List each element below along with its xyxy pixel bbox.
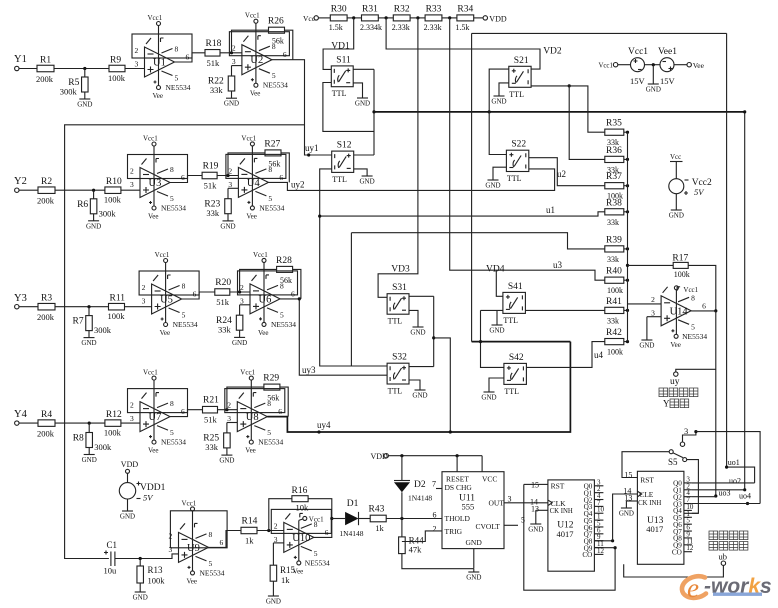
resistor R19 (202, 172, 217, 179)
svg-text:R13: R13 (148, 565, 164, 575)
svg-text:R30: R30 (331, 5, 347, 15)
svg-text:R14: R14 (242, 517, 258, 527)
resistor R16 (292, 496, 308, 502)
value R21 51k (204, 415, 218, 425)
wire R29 to output (280, 387, 288, 417)
U13 Q8 stub (684, 537, 692, 539)
node u1 (546, 205, 555, 215)
svg-text:VD3: VD3 (391, 264, 410, 274)
label R25 (203, 434, 219, 444)
svg-text:555: 555 (462, 502, 475, 512)
value R3 200k (37, 312, 55, 322)
svg-text:Vee: Vee (670, 341, 681, 349)
svg-text:1k: 1k (245, 536, 254, 546)
U12 pin number 4 (597, 492, 601, 500)
junction rail R38 (626, 210, 629, 213)
U13 pin Q5 (673, 514, 682, 522)
wire to R7 (88, 307, 90, 316)
label S5 (668, 457, 678, 467)
wire S21 gnd stub (499, 83, 509, 96)
svg-text:NE5534: NE5534 (200, 568, 225, 577)
svg-text:uy1: uy1 (305, 143, 319, 153)
wire U11 gnd drop (473, 549, 475, 569)
wire Y4 input (19, 422, 38, 424)
svg-text:2: 2 (169, 531, 173, 540)
svg-text:Y: Y (663, 399, 670, 409)
U12 Q1 stub (594, 492, 603, 494)
wire U12 RST stub (536, 483, 548, 485)
wire Vcc2 stem (675, 162, 677, 179)
junction uy1 (307, 153, 310, 156)
svg-text:Vcc1: Vcc1 (240, 369, 255, 377)
value R7 300k (94, 325, 112, 335)
svg-text:GND: GND (669, 212, 684, 220)
junction uy3 (298, 297, 301, 300)
svg-text:U10: U10 (292, 533, 310, 544)
wire to R8 (88, 423, 90, 432)
label R1 (40, 56, 51, 66)
U11 pin2 (433, 525, 437, 534)
svg-text:GND: GND (466, 538, 483, 547)
wire U11 trig jog (402, 531, 442, 542)
terminal Y4 (15, 421, 19, 425)
resistor R38 (605, 209, 624, 215)
U13 pin15 (624, 470, 632, 479)
node VDD top (489, 14, 507, 23)
svg-text:GND: GND (485, 182, 500, 190)
label R24 (216, 316, 232, 326)
resistor R5 (82, 77, 89, 92)
wire S21 out to R35 (531, 86, 605, 132)
resistor R36 (605, 156, 624, 162)
ground R15 (266, 596, 281, 606)
wire R17 to out (688, 265, 716, 311)
label trigger-input (709, 542, 748, 551)
resistor R31 (362, 15, 379, 21)
U13 pin Q9 (673, 542, 682, 550)
wire VDD drop pin8 (481, 456, 483, 472)
svg-text:12: 12 (686, 544, 694, 552)
U12 pin13 (531, 505, 539, 514)
svg-text:200k: 200k (37, 312, 55, 322)
svg-text:U8: U8 (246, 412, 259, 423)
U12 pin number 10 (597, 506, 605, 514)
wire feedback R28 (240, 269, 277, 292)
svg-text:R21: R21 (203, 396, 219, 406)
wire C1 to R13 node (115, 554, 179, 559)
svg-text:NE5534: NE5534 (173, 320, 198, 329)
svg-text:56k: 56k (280, 276, 292, 285)
wire S3 rail to uy4 line (434, 338, 451, 432)
junction Y3 node (87, 305, 90, 308)
value R20 51k (216, 297, 230, 307)
junction supplies gnd (652, 63, 655, 66)
node uo4 (739, 491, 751, 500)
value R10 100k (104, 195, 122, 205)
power source Vee1 (660, 58, 674, 72)
svg-text:8: 8 (691, 293, 695, 302)
U12 Q4 stub (594, 512, 603, 514)
label R38 (606, 198, 622, 208)
terminal 3 (680, 442, 684, 446)
wire U12 CKINH gnd (536, 509, 548, 511)
svg-text:uy3: uy3 (302, 365, 316, 375)
svg-text:Vee: Vee (250, 90, 261, 98)
svg-text:33k: 33k (218, 324, 232, 334)
svg-text:Vee: Vee (153, 92, 164, 100)
wire R21 to U8 (218, 409, 238, 411)
svg-text:TTL: TTL (509, 90, 524, 99)
svg-text:S41: S41 (508, 282, 523, 292)
node Vee terminal (693, 61, 705, 70)
svg-text:2: 2 (274, 521, 278, 530)
wire R23 to gnd (227, 214, 229, 221)
svg-text:R27: R27 (264, 139, 280, 149)
node uo1 (728, 458, 740, 467)
svg-text:100k: 100k (607, 286, 623, 295)
ground S21 (491, 96, 506, 106)
svg-text:ub: ub (719, 552, 728, 562)
svg-text:5: 5 (280, 310, 284, 319)
analog switch S32 (387, 353, 409, 396)
wire S32 gnd stub (409, 380, 420, 390)
U13 Q7 stub (684, 530, 692, 532)
svg-text:TTL: TTL (388, 387, 403, 396)
wire terminal3 right (696, 432, 760, 504)
junction VDD D2 (400, 454, 403, 457)
U12 pin number 11 (597, 540, 604, 548)
svg-text:56k: 56k (267, 394, 279, 403)
svg-text:GND: GND (232, 339, 247, 347)
U12 pin Q0 (584, 483, 593, 491)
wire R13 gnd (139, 583, 141, 592)
svg-text:Y1: Y1 (14, 54, 27, 65)
op-amp U1 (132, 14, 192, 100)
resistor R10 (105, 187, 121, 194)
U13 pin Q1 (673, 487, 682, 495)
wire rail to U14 pin2 (628, 303, 662, 305)
svg-text:2: 2 (142, 283, 146, 292)
svg-text:TTL: TTL (332, 175, 347, 184)
wire U7 out (170, 410, 203, 417)
svg-text:S32: S32 (392, 353, 407, 363)
wire S31 gnd stub (409, 310, 418, 327)
resistor R6 (90, 199, 97, 214)
svg-text:U9: U9 (187, 543, 200, 554)
svg-text:100k: 100k (108, 73, 126, 83)
diode D2 (394, 481, 410, 493)
svg-text:U6: U6 (259, 294, 272, 305)
svg-text:NE5534: NE5534 (161, 204, 186, 213)
U13 pin number 5 (686, 517, 690, 525)
svg-text:uy2: uy2 (291, 180, 305, 190)
label R44 (409, 536, 425, 546)
U12 pin Q9 (584, 544, 593, 552)
svg-text:47k: 47k (409, 545, 423, 555)
svg-text:GND: GND (491, 98, 506, 106)
svg-text:5: 5 (268, 194, 272, 203)
wire R36 feed (569, 86, 605, 159)
U12 Q7 stub (594, 533, 603, 535)
svg-text:2: 2 (433, 525, 437, 534)
svg-text:GND: GND (82, 456, 97, 464)
wire U11 out to U12 (504, 502, 548, 504)
resistor R18 (205, 50, 220, 57)
U13 pin14 (623, 486, 631, 495)
svg-text:3: 3 (508, 495, 512, 504)
ground S42 (481, 392, 496, 402)
wire S5 to U13 RST (622, 452, 669, 478)
wire S41 in (496, 270, 503, 296)
svg-text:Vcc1: Vcc1 (182, 499, 197, 507)
label R5 (68, 78, 79, 88)
resistor R2 (38, 187, 55, 194)
value R41 33k (607, 316, 619, 325)
wire R13 drop (139, 559, 141, 567)
svg-text:GND: GND (133, 594, 148, 602)
node ub (719, 552, 728, 562)
resistor R25 (224, 433, 231, 448)
ground S11 (355, 98, 370, 108)
wire U14 pin3 drop (646, 317, 648, 340)
U13 pin number 12 (686, 544, 694, 552)
wire R9 to U1 pin3 (125, 68, 145, 70)
label R34 (457, 5, 473, 15)
ground below R7 (81, 338, 96, 348)
svg-text:3: 3 (142, 297, 146, 306)
svg-text:R8: R8 (73, 434, 84, 444)
svg-text:Vee: Vee (160, 329, 171, 337)
U13 CO stub (684, 551, 692, 553)
wire S41 out to R41 (525, 309, 604, 311)
wire R18 to U2 (220, 52, 242, 54)
junction rail R41 (626, 309, 629, 312)
svg-text:Vee: Vee (258, 329, 269, 337)
wire R22 to gnd (231, 91, 233, 98)
svg-text:NE5534: NE5534 (259, 203, 284, 212)
svg-text:33k: 33k (205, 442, 219, 452)
svg-text:Vcc1: Vcc1 (253, 251, 268, 259)
wire loop2 right (744, 112, 746, 490)
U13 pin number 4 (686, 489, 690, 497)
svg-text:TTL: TTL (507, 174, 522, 183)
svg-text:S21: S21 (514, 56, 529, 66)
U13 pin Q6 (673, 521, 682, 529)
value R11 100k (108, 311, 126, 321)
U12 Q9 stub (594, 547, 603, 549)
wire R2 to R10 (55, 189, 105, 191)
svg-text:10u: 10u (104, 566, 118, 576)
svg-text:33k: 33k (206, 208, 220, 218)
wire S3 rail (433, 296, 435, 366)
switch S5 pole right (683, 458, 687, 462)
wire R16 right (308, 499, 332, 519)
svg-text:S31: S31 (392, 283, 407, 293)
svg-text:Y4: Y4 (14, 409, 28, 420)
resistor R30 (330, 15, 347, 21)
value R38 33k (607, 218, 619, 227)
svg-text:GND: GND (466, 574, 481, 582)
wire VDD drop pin4 (456, 456, 458, 472)
wire D2 to node (401, 492, 403, 518)
svg-text:Vee: Vee (187, 577, 198, 585)
node Vcc2 top (670, 153, 681, 161)
junction rail R36 (626, 158, 629, 161)
wire R30 junction (347, 17, 361, 19)
U12 pin Q6 (584, 524, 593, 532)
wire feedback R26 (232, 30, 269, 53)
U13 clk arrow (638, 491, 642, 496)
U12 pin number 7 (597, 499, 601, 507)
svg-text:2: 2 (651, 295, 655, 304)
wire R33 junction (442, 17, 457, 19)
label R7 (73, 317, 84, 327)
label D1 (347, 499, 359, 509)
svg-text:U4: U4 (247, 178, 261, 189)
wire R42 to rail (624, 341, 628, 343)
svg-text:GND: GND (220, 222, 235, 230)
wire S42 gnd stub (489, 378, 504, 392)
wire U13 Q3 ext (692, 503, 760, 505)
resistor R11 (109, 303, 125, 310)
wire R25 to gnd (226, 448, 228, 455)
terminal VDD1 (126, 469, 130, 473)
value R42 100k (607, 348, 623, 357)
U13 pin CLE (639, 490, 654, 499)
svg-text:uo2: uo2 (729, 477, 741, 486)
label Vee1 (658, 47, 677, 57)
wire U3 out (170, 176, 202, 183)
wire U1 out (175, 53, 206, 62)
ground S41 (489, 325, 504, 335)
svg-text:R26: R26 (268, 17, 284, 27)
value Vcc1 15V (630, 76, 646, 86)
wire U11 pin7 stub (436, 488, 442, 490)
wire R11 to U5 pin3 (125, 306, 152, 308)
svg-text:3: 3 (169, 545, 173, 554)
junction u1 left (318, 215, 321, 218)
U11 pin5 (521, 516, 525, 525)
ground U12 CKINH (528, 524, 543, 534)
label R41 (606, 297, 622, 307)
wire Vcc1 (618, 64, 631, 66)
svg-text:R34: R34 (457, 5, 473, 15)
ground below R23 (220, 221, 235, 231)
value U13 4017 (646, 524, 663, 534)
U13 Q9 stub (684, 544, 692, 546)
svg-text:33k: 33k (607, 316, 619, 325)
svg-text:1.5k: 1.5k (329, 23, 343, 32)
U12 pin Q3 (584, 503, 593, 511)
svg-text:U3: U3 (149, 178, 162, 189)
label R22 (208, 77, 224, 87)
op-amp U10 (271, 509, 331, 575)
svg-text:Vcc1: Vcc1 (155, 251, 170, 259)
U13 pin RST (640, 475, 654, 484)
svg-text:CO: CO (672, 549, 682, 557)
wire Vcc1 to Vee1 (645, 64, 661, 66)
resistor R41 (605, 307, 624, 313)
svg-text:uy4: uy4 (317, 420, 331, 430)
node 3 (684, 426, 688, 436)
svg-text:NE5534: NE5534 (305, 558, 330, 567)
wire node to R44 (401, 519, 403, 537)
svg-text:Vee: Vee (246, 212, 257, 220)
wire U13 Q0 ext (692, 482, 755, 484)
svg-text:D1: D1 (347, 499, 359, 509)
wire U12 reset loop (524, 483, 536, 485)
svg-text:5: 5 (691, 322, 695, 331)
wire R12 to U7 pin3 (121, 422, 140, 424)
svg-text:Vcc1: Vcc1 (599, 63, 613, 70)
svg-text:15: 15 (531, 481, 539, 490)
label R32 (394, 5, 410, 15)
svg-text:200k: 200k (37, 196, 55, 206)
wire R4 to R12 (55, 422, 105, 424)
svg-text:R6: R6 (77, 200, 88, 210)
wire R41 to rail (624, 309, 628, 311)
U11 pin7 (432, 480, 436, 489)
value Vcc2 5V (694, 187, 705, 197)
resistor R28 (277, 266, 293, 272)
wire uy1 net (272, 60, 332, 155)
op-amp U14 (651, 286, 707, 349)
wire R43 to U11 (386, 518, 442, 520)
svg-text:8: 8 (170, 165, 174, 174)
diode D1 (345, 512, 358, 525)
label R11 (110, 294, 126, 304)
wire R27 to output (281, 153, 289, 183)
svg-text:TTL: TTL (332, 89, 347, 98)
wire R36 to rail (624, 158, 628, 160)
node uy4 (317, 420, 331, 430)
capacitor C1 (104, 551, 115, 567)
U11 pin THOLD (445, 514, 471, 523)
terminal Y3 (15, 305, 19, 309)
terminal Y2 (15, 188, 19, 192)
svg-text:GND: GND (81, 339, 96, 347)
wire U2 pin3 (232, 65, 242, 67)
wire U13 Q1 ext (692, 489, 745, 491)
U12 pin Q1 (584, 489, 593, 497)
node Vcc top (303, 14, 316, 23)
svg-text:R4: R4 (41, 410, 52, 420)
U12 Q0 stub (594, 485, 603, 487)
wire D2 top (401, 456, 403, 481)
U11 pin6 (433, 511, 437, 520)
wire cascade up (613, 494, 638, 541)
U11 pin GND (466, 538, 483, 547)
U13 pin number 9 (686, 530, 690, 538)
svg-text:NE5534: NE5534 (166, 83, 191, 92)
svg-text:Vee: Vee (245, 447, 256, 455)
svg-text:R37: R37 (606, 172, 622, 182)
svg-text:C1: C1 (107, 540, 118, 550)
wire supplies gnd (652, 65, 654, 84)
svg-text:R28: R28 (276, 256, 292, 266)
value R34 1.5k (455, 23, 469, 32)
resistor R32 (393, 15, 410, 21)
U11 pin3 (508, 495, 512, 504)
svg-text:R29: R29 (263, 374, 279, 384)
svg-text:4017: 4017 (557, 529, 574, 539)
U13 pin number 1 (686, 510, 690, 518)
U12 pin RST (551, 482, 565, 491)
value R22 33k (210, 85, 224, 95)
svg-text:TRIG: TRIG (445, 527, 463, 536)
wire U9 out (209, 531, 242, 548)
resistor R4 (38, 420, 55, 427)
